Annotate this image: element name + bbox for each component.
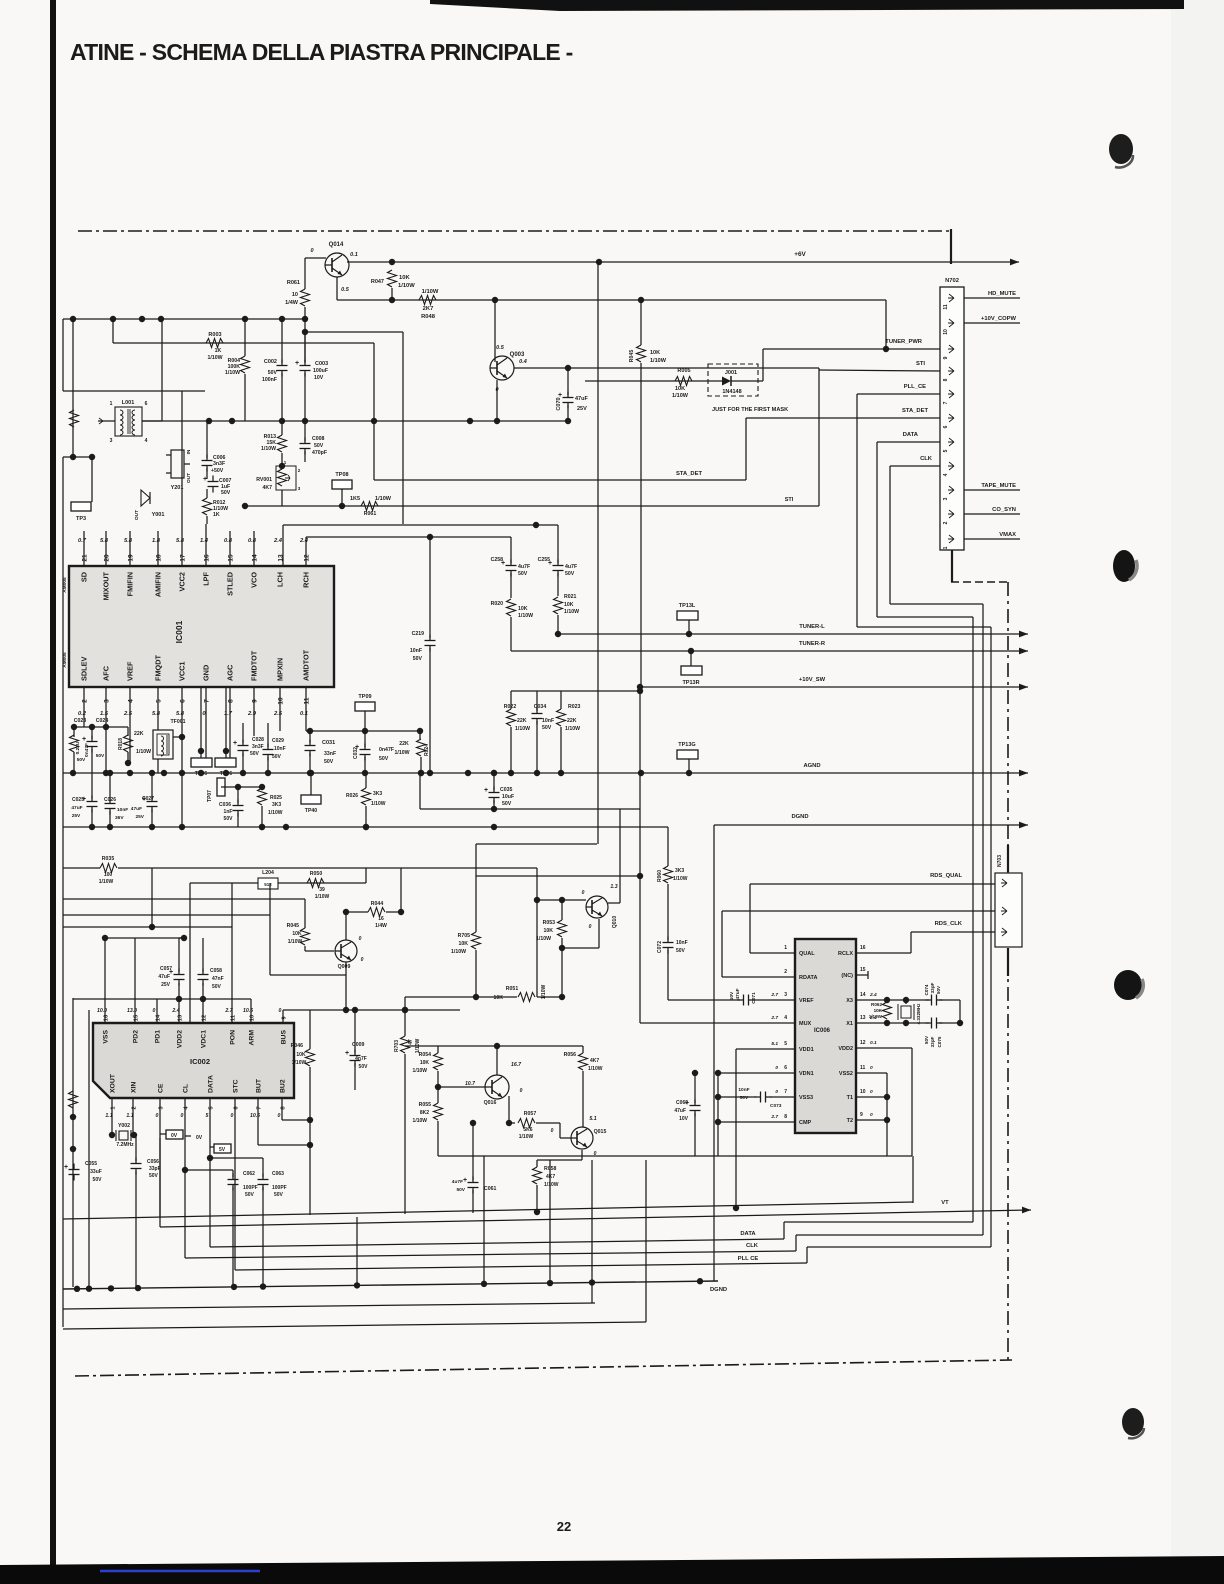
transistor Q010 xyxy=(586,896,608,918)
svg-text:GND: GND xyxy=(202,665,211,681)
svg-text:5.8: 5.8 xyxy=(124,538,133,544)
wire DGND rail upper left xyxy=(63,826,668,828)
svg-text:13: 13 xyxy=(860,1015,866,1021)
svg-text:C036: C036 xyxy=(219,802,231,808)
capacitor C060 xyxy=(690,1105,701,1107)
svg-text:C023: C023 xyxy=(74,718,87,724)
transistor Q009 xyxy=(335,940,357,962)
junction on DGND bottom xyxy=(354,1282,360,1288)
junction on DGND bottom xyxy=(481,1281,487,1287)
wire row y1046 xyxy=(405,1045,583,1047)
svg-text:2K7: 2K7 xyxy=(423,306,434,312)
wire C009 col xyxy=(354,1010,356,1053)
svg-text:C031: C031 xyxy=(322,740,335,746)
wire C029 col xyxy=(267,723,269,747)
wire C061 col xyxy=(472,1123,474,1180)
svg-text:AM008: AM008 xyxy=(62,652,68,668)
svg-text:C258: C258 xyxy=(491,557,504,563)
svg-text:3K3: 3K3 xyxy=(675,868,684,874)
svg-text:R053: R053 xyxy=(543,920,556,926)
wire row y844 xyxy=(476,843,597,845)
svg-text:C009: C009 xyxy=(352,1042,365,1048)
svg-text:RDATA: RDATA xyxy=(799,975,817,981)
wire PLL_CE to pin7 xyxy=(857,393,940,395)
wire bundle PLL_CE xyxy=(856,394,858,627)
capacitor C255 xyxy=(553,565,564,567)
connector N702 pin 1 xyxy=(948,535,954,543)
svg-text:TUNER_PWR: TUNER_PWR xyxy=(885,339,923,345)
wire IC001 top pin stub xyxy=(253,531,255,566)
svg-text:1: 1 xyxy=(943,546,949,549)
svg-text:+: + xyxy=(64,1164,68,1171)
IC IC001 xyxy=(69,566,334,687)
resistor R055 xyxy=(434,1103,443,1120)
svg-text:0: 0 xyxy=(775,1089,778,1095)
svg-text:TP09: TP09 xyxy=(358,694,371,700)
svg-text:22K: 22K xyxy=(399,741,409,747)
svg-text:25V: 25V xyxy=(72,813,81,819)
wire IC001 top pin stub xyxy=(105,531,107,566)
svg-text:33uF: 33uF xyxy=(90,1169,102,1175)
capacitor C058 xyxy=(198,974,209,976)
svg-text:AM008: AM008 xyxy=(62,577,68,593)
resistor R061b xyxy=(361,502,378,511)
crystal X001 xyxy=(901,1006,911,1018)
capacitor C009 xyxy=(350,1055,361,1057)
wire C034 col xyxy=(536,691,538,711)
wire C255 col xyxy=(557,573,559,596)
svg-text:5.1: 5.1 xyxy=(771,1041,778,1047)
svg-text:0: 0 xyxy=(589,924,592,930)
svg-text:0.1: 0.1 xyxy=(870,1040,877,1046)
svg-text:0: 0 xyxy=(775,1065,778,1071)
wire TP09 stub xyxy=(364,711,366,731)
capacitor C036 xyxy=(233,805,244,807)
svg-text:3: 3 xyxy=(104,699,111,703)
diode J001 dashed box xyxy=(708,364,758,396)
svg-text:R021: R021 xyxy=(564,594,577,600)
svg-text:VCO: VCO xyxy=(250,572,259,588)
svg-text:3K3: 3K3 xyxy=(373,791,382,797)
wire Q010 base row xyxy=(537,899,586,901)
svg-text:0: 0 xyxy=(361,957,364,963)
wire CMP xyxy=(718,1121,795,1123)
svg-text:47uF: 47uF xyxy=(674,1108,686,1114)
test point TP13R xyxy=(681,666,702,675)
svg-text:TP07: TP07 xyxy=(207,790,213,802)
wire y391 segment xyxy=(63,390,205,392)
svg-text:10K: 10K xyxy=(292,931,302,937)
svg-text:100PF: 100PF xyxy=(272,1185,287,1191)
capacitor C074 xyxy=(931,995,933,1006)
wire bundle DATA xyxy=(876,442,878,617)
junction TP09 bottom xyxy=(362,728,368,734)
svg-text:RV001: RV001 xyxy=(256,477,272,483)
svg-text:4K7: 4K7 xyxy=(262,485,272,491)
resistor R013 xyxy=(278,435,287,452)
svg-text:1nF: 1nF xyxy=(224,809,233,815)
svg-text:LCH: LCH xyxy=(276,572,285,587)
svg-text:1/10W: 1/10W xyxy=(225,370,240,376)
wire RV001 bottom xyxy=(281,490,283,506)
wire VT rail xyxy=(160,1210,1031,1227)
svg-text:RDS_QUAL: RDS_QUAL xyxy=(930,873,962,879)
junction on AGND rail xyxy=(534,770,540,776)
svg-text:R060: R060 xyxy=(657,870,663,882)
svg-text:HD_MUTE: HD_MUTE xyxy=(988,291,1016,297)
svg-text:1/10W: 1/10W xyxy=(422,289,439,295)
capacitor C056 xyxy=(135,1135,137,1161)
svg-text:8K2: 8K2 xyxy=(420,1110,429,1116)
wire IC002 top stubs xyxy=(104,938,106,1023)
wire R060 col xyxy=(667,884,669,940)
svg-text:5: 5 xyxy=(943,449,949,452)
wire RDATA xyxy=(722,976,795,978)
svg-text:RCLX: RCLX xyxy=(838,951,853,957)
svg-text:1K: 1K xyxy=(215,348,222,354)
punch hole 1 xyxy=(1109,134,1133,168)
junction on DGND upper xyxy=(283,824,289,830)
svg-text:1/10W: 1/10W xyxy=(518,613,533,619)
svg-text:50V: 50V xyxy=(740,1095,749,1101)
wire L001 right xyxy=(142,420,162,422)
transformer L001 xyxy=(115,407,142,436)
wire R062 col xyxy=(886,1000,888,1002)
resistor R062 xyxy=(883,1002,892,1019)
svg-text:AFC: AFC xyxy=(102,665,111,681)
svg-text:0V: 0V xyxy=(171,1133,178,1139)
wire IC001 top pin stub xyxy=(229,531,231,566)
junction R051 xyxy=(473,994,479,1000)
wire C219 col xyxy=(429,537,431,638)
svg-text:2: 2 xyxy=(943,521,949,524)
svg-text:C056: C056 xyxy=(147,1159,159,1165)
junction on DGND bottom xyxy=(231,1284,237,1290)
wire STA_DET row xyxy=(374,479,746,481)
wire VSS2 xyxy=(856,1072,887,1074)
wire IC001 bottom pin stub xyxy=(83,687,85,727)
svg-text:R045: R045 xyxy=(287,923,300,929)
resistor left lower xyxy=(69,1091,78,1108)
svg-text:11: 11 xyxy=(943,304,949,310)
svg-text:BUS: BUS xyxy=(281,1030,288,1045)
wire IC001 top pin stub xyxy=(181,391,183,566)
svg-text:50V: 50V xyxy=(268,370,278,376)
svg-text:VDD2: VDD2 xyxy=(177,1030,184,1048)
svg-text:C072: C072 xyxy=(657,941,663,953)
capacitor C034 xyxy=(532,713,543,715)
wire C070 column xyxy=(567,368,569,395)
wire C031 col xyxy=(309,731,311,743)
wire C028 col xyxy=(242,723,244,743)
resistor R048 2K7 xyxy=(419,296,436,305)
junction on AGND rail xyxy=(265,770,271,776)
svg-text:50V: 50V xyxy=(245,1192,255,1198)
svg-text:VCC2: VCC2 xyxy=(178,572,187,591)
svg-text:1.8: 1.8 xyxy=(152,538,161,544)
svg-text:50V: 50V xyxy=(676,948,686,954)
svg-text:5.1: 5.1 xyxy=(589,1116,596,1122)
capacitor C061 xyxy=(468,1182,479,1184)
svg-text:6: 6 xyxy=(180,699,187,703)
wire R023 col xyxy=(560,691,562,709)
wire Q003 collector row xyxy=(514,367,819,369)
svg-text:+10V_COPW: +10V_COPW xyxy=(981,316,1016,322)
svg-text:10V: 10V xyxy=(679,1116,689,1122)
svg-text:50V: 50V xyxy=(274,1192,284,1198)
wire R022 feed row xyxy=(511,690,640,692)
diode 1N4148 xyxy=(708,380,722,382)
svg-text:5V: 5V xyxy=(219,1147,226,1153)
junction TP3 row xyxy=(70,454,76,460)
connector N702 pin 9 xyxy=(948,345,954,353)
svg-text:R020: R020 xyxy=(491,601,504,607)
svg-text:10nF: 10nF xyxy=(117,807,128,813)
resistor R020 xyxy=(507,599,516,616)
svg-text:C034: C034 xyxy=(534,704,547,710)
capacitor C029 xyxy=(263,749,274,751)
svg-text:1/10W: 1/10W xyxy=(541,984,547,999)
svg-text:STI: STI xyxy=(916,361,925,367)
svg-text:16: 16 xyxy=(378,916,384,922)
svg-text:1/10W: 1/10W xyxy=(451,949,466,955)
wire rail y421 xyxy=(142,420,568,422)
svg-text:50V: 50V xyxy=(456,1187,465,1193)
svg-text:OUT: OUT xyxy=(134,510,140,520)
svg-text:VDC1: VDC1 xyxy=(201,1030,208,1048)
wire x592 col b xyxy=(591,1160,593,1303)
wire R051 row xyxy=(405,996,517,998)
svg-text:0: 0 xyxy=(582,890,585,896)
svg-text:R703: R703 xyxy=(394,1040,400,1052)
svg-text:5.8: 5.8 xyxy=(176,538,185,544)
svg-text:FMIFIN: FMIFIN xyxy=(126,572,135,596)
svg-text:10K: 10K xyxy=(518,606,528,612)
svg-text:2: 2 xyxy=(82,699,89,703)
wire R022 col xyxy=(510,691,512,709)
junction y927 xyxy=(149,924,155,930)
svg-text:C219: C219 xyxy=(412,631,425,637)
connector N702 pin 4 xyxy=(948,462,954,470)
svg-text:+: + xyxy=(484,787,488,794)
dash-dot right border xyxy=(1007,582,1009,1362)
connector N702 pin 5 xyxy=(948,438,954,446)
wire R020 bottom xyxy=(510,617,512,651)
resistor R703 xyxy=(401,1036,410,1053)
svg-text:2: 2 xyxy=(784,969,787,975)
svg-text:1/10W: 1/10W xyxy=(288,939,303,945)
wire R703 col xyxy=(404,1010,406,1036)
resistor R053 xyxy=(558,920,567,937)
wire R004 col xyxy=(244,319,246,356)
capacitor C219 xyxy=(425,640,436,642)
svg-text:C003: C003 xyxy=(315,361,328,367)
test point TP13G xyxy=(677,750,698,759)
svg-text:AMIFIN: AMIFIN xyxy=(154,572,163,597)
resistor R051 xyxy=(518,993,535,1002)
svg-text:10nF: 10nF xyxy=(542,718,554,724)
svg-text:C060: C060 xyxy=(676,1100,688,1106)
svg-text:1N4148: 1N4148 xyxy=(722,389,741,395)
svg-text:PLL CE: PLL CE xyxy=(738,1256,759,1262)
svg-text:C073: C073 xyxy=(770,1103,782,1109)
wire STA_DET vertical xyxy=(745,418,747,480)
junction on AGND rail xyxy=(198,770,204,776)
svg-text:R048: R048 xyxy=(421,314,436,320)
svg-text:1/10W: 1/10W xyxy=(565,726,580,732)
svg-text:QUAL: QUAL xyxy=(799,951,815,957)
wire IC001 bottom pin stub xyxy=(205,687,207,758)
junction on rail y319 xyxy=(242,316,248,322)
capacitor C031 xyxy=(305,745,316,747)
wire BUT down xyxy=(257,1098,259,1145)
junction on rail y421 xyxy=(279,418,285,424)
resistor R047 vertical xyxy=(388,270,397,287)
wire row y332 xyxy=(305,331,403,333)
junction y1010 xyxy=(343,1007,349,1013)
wire T1 xyxy=(856,1096,887,1098)
svg-text:12: 12 xyxy=(860,1040,866,1046)
wire x913 col xyxy=(912,1156,914,1203)
svg-text:R018: R018 xyxy=(118,738,124,750)
svg-text:TUNER-R: TUNER-R xyxy=(799,641,826,647)
svg-text:7: 7 xyxy=(784,1089,787,1095)
transistor Q016 xyxy=(485,1075,509,1099)
wire row y915 xyxy=(63,914,270,916)
junction C035 xyxy=(491,770,497,776)
svg-text:FMDTOT: FMDTOT xyxy=(250,650,259,681)
svg-text:0: 0 xyxy=(279,1008,282,1014)
svg-text:0: 0 xyxy=(870,1065,873,1071)
wire top rail y319 xyxy=(63,318,306,320)
svg-text:TF001: TF001 xyxy=(171,719,186,725)
capacitor C027 xyxy=(147,801,158,803)
svg-text:VDN1: VDN1 xyxy=(799,1071,814,1077)
svg-text:50V: 50V xyxy=(518,571,528,577)
wire C072 bottom xyxy=(667,950,669,1000)
svg-text:9: 9 xyxy=(252,699,259,703)
test point TP13L xyxy=(677,611,698,620)
svg-text:TP13R: TP13R xyxy=(682,680,699,686)
resistor R018 xyxy=(127,727,129,736)
wire TP13G stub xyxy=(688,759,690,773)
svg-text:VDD2: VDD2 xyxy=(838,1046,853,1052)
resistor R057 xyxy=(518,1119,535,1128)
test point TP06 xyxy=(191,758,212,767)
svg-text:C002: C002 xyxy=(264,359,277,365)
svg-text:5.8: 5.8 xyxy=(100,538,109,544)
junction R013 bottom xyxy=(279,463,285,469)
svg-text:4: 4 xyxy=(128,699,135,703)
wire pin4 col link xyxy=(128,762,130,764)
svg-text:50V: 50V xyxy=(565,571,575,577)
svg-text:50V: 50V xyxy=(324,759,334,765)
svg-text:8: 8 xyxy=(943,378,949,381)
wire row y927 xyxy=(63,926,232,928)
wire x190 col xyxy=(189,883,191,1023)
capacitor C003 xyxy=(300,365,311,367)
capacitor C258 xyxy=(506,565,517,567)
wire corner x374 xyxy=(373,343,375,480)
svg-text:10V: 10V xyxy=(729,991,735,1000)
junction R053 bottom xyxy=(559,945,565,951)
svg-text:14: 14 xyxy=(860,992,866,998)
wire x886 to TUNER_PWR xyxy=(885,300,887,349)
svg-text:1.7: 1.7 xyxy=(224,711,233,717)
junction on +6V at R047 xyxy=(389,259,395,265)
svg-text:50V: 50V xyxy=(413,656,423,662)
svg-text:50V: 50V xyxy=(359,1064,369,1070)
test point TP3 xyxy=(71,502,91,511)
border corner stub right top xyxy=(950,229,952,264)
svg-text:100PF: 100PF xyxy=(243,1185,258,1191)
dash-dot bottom border xyxy=(75,1360,1012,1376)
left scan bar xyxy=(50,0,56,1565)
wire J001 to TUNER_PWR corner xyxy=(758,380,763,382)
svg-text:1/4W: 1/4W xyxy=(375,923,387,929)
svg-text:1/10W: 1/10W xyxy=(375,496,392,502)
junction y727 xyxy=(71,724,77,730)
svg-text:7: 7 xyxy=(943,401,949,404)
resistor R012 xyxy=(203,498,212,515)
junction on DGND upper xyxy=(491,824,497,830)
wire row y343 xyxy=(113,342,374,344)
wire X3 row xyxy=(856,999,929,1001)
junction on rail y421 xyxy=(206,418,212,424)
svg-text:0: 0 xyxy=(231,1113,234,1119)
junction on DGND bottom xyxy=(108,1285,114,1291)
svg-text:3K3: 3K3 xyxy=(272,802,281,808)
svg-text:36V: 36V xyxy=(115,815,124,821)
junction on AGND rail xyxy=(161,770,167,776)
wire IC001 bottom pin stub xyxy=(279,687,281,731)
svg-text:8: 8 xyxy=(784,1114,787,1120)
svg-text:SDLEV: SDLEV xyxy=(80,657,89,681)
wire x366 link xyxy=(365,868,367,883)
svg-text:AGC: AGC xyxy=(226,664,235,681)
wire C074-C075 join xyxy=(959,1000,961,1023)
svg-text:R050: R050 xyxy=(310,871,323,877)
capacitor C028 xyxy=(238,745,249,747)
wire bottom row 1327 xyxy=(63,1322,646,1329)
wire R026 col xyxy=(365,773,367,788)
wire +10V_COPW xyxy=(964,322,1020,324)
svg-text:0: 0 xyxy=(359,936,362,942)
svg-text:22K: 22K xyxy=(517,718,527,724)
svg-text:0n47F: 0n47F xyxy=(84,743,90,757)
svg-text:R023: R023 xyxy=(568,704,581,710)
svg-text:10K: 10K xyxy=(420,1060,430,1066)
wire IC001 bottom pin stub xyxy=(181,687,183,773)
junction C070 top xyxy=(565,365,571,371)
svg-text:Q010: Q010 xyxy=(612,916,618,928)
wire R061 bottom column xyxy=(304,307,306,362)
top scan bar xyxy=(430,0,1184,11)
junction C036 xyxy=(235,784,241,790)
transistor Q015 xyxy=(571,1127,593,1149)
svg-text:N703: N703 xyxy=(997,855,1003,867)
wire IC001 bottom pin stub xyxy=(105,687,107,773)
wire Q014 emitter down xyxy=(336,277,338,300)
wire R057 right xyxy=(536,1122,560,1124)
svg-text:VSS2: VSS2 xyxy=(839,1071,853,1077)
svg-text:BUT: BUT xyxy=(256,1078,263,1093)
wire C026 col xyxy=(109,773,111,801)
junction R054 base xyxy=(435,1084,441,1090)
svg-text:10K: 10K xyxy=(650,350,660,356)
svg-text:47nF: 47nF xyxy=(212,976,224,982)
capacitor C035 xyxy=(489,792,500,794)
